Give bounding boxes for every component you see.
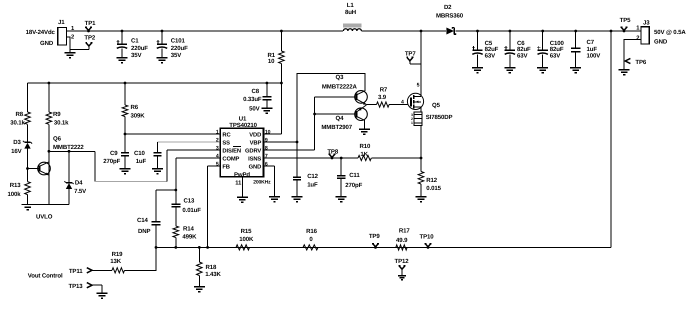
svg-text:TP2: TP2: [84, 35, 95, 42]
svg-text:MMBT2222A: MMBT2222A: [322, 83, 358, 90]
svg-text:499K: 499K: [182, 234, 197, 241]
svg-text:35V: 35V: [131, 52, 141, 59]
svg-text:82uF: 82uF: [485, 46, 499, 53]
svg-text:7.5V: 7.5V: [74, 188, 86, 195]
svg-text:13K: 13K: [110, 258, 121, 265]
svg-text:82uF: 82uF: [517, 46, 531, 53]
svg-text:TP7: TP7: [405, 51, 416, 58]
svg-text:100K: 100K: [239, 236, 254, 243]
svg-text:C10: C10: [134, 150, 145, 157]
svg-text:R10: R10: [360, 143, 371, 150]
svg-text:3.9: 3.9: [378, 94, 387, 101]
svg-text:63V: 63V: [485, 53, 495, 60]
svg-text:TP12: TP12: [395, 258, 410, 265]
svg-text:49.9: 49.9: [396, 237, 408, 244]
svg-text:1uF: 1uF: [307, 182, 318, 189]
svg-text:270pF: 270pF: [103, 158, 120, 165]
svg-text:4: 4: [401, 100, 404, 106]
svg-text:7: 7: [265, 153, 268, 159]
svg-text:63V: 63V: [517, 53, 527, 60]
svg-text:220uF: 220uF: [131, 45, 148, 52]
svg-text:R15: R15: [241, 228, 252, 235]
svg-text:1.43K: 1.43K: [205, 271, 221, 278]
svg-text:C12: C12: [307, 173, 318, 180]
svg-text:C1: C1: [131, 37, 139, 44]
svg-text:R14: R14: [183, 226, 194, 233]
svg-text:D3: D3: [13, 139, 21, 146]
svg-text:GND: GND: [40, 40, 54, 47]
svg-text:TP11: TP11: [69, 268, 83, 275]
svg-text:TP8: TP8: [327, 148, 338, 155]
svg-text:8uH: 8uH: [345, 9, 356, 16]
svg-text:18V-24Vdc: 18V-24Vdc: [26, 29, 56, 36]
svg-text:R13: R13: [10, 182, 21, 189]
svg-text:63V: 63V: [550, 53, 560, 60]
svg-text:SI7850DP: SI7850DP: [426, 114, 453, 121]
svg-text:RC: RC: [222, 131, 231, 138]
svg-text:TP13: TP13: [69, 283, 84, 290]
svg-text:100k: 100k: [8, 191, 22, 198]
svg-text:J3: J3: [643, 19, 650, 26]
svg-text:D2: D2: [444, 4, 452, 11]
svg-text:R7: R7: [380, 86, 388, 93]
svg-text:50V @ 0.5A: 50V @ 0.5A: [654, 29, 686, 36]
svg-text:270pF: 270pF: [345, 182, 362, 189]
svg-text:MBRS360: MBRS360: [436, 13, 464, 20]
svg-text:4: 4: [216, 153, 219, 159]
svg-text:2: 2: [636, 35, 639, 42]
svg-text:C8: C8: [252, 88, 260, 95]
svg-text:3: 3: [216, 145, 219, 151]
svg-text:0.33uF: 0.33uF: [243, 96, 262, 103]
svg-text:Vout Control: Vout Control: [28, 272, 63, 279]
svg-text:1uF: 1uF: [136, 158, 147, 165]
svg-text:5: 5: [417, 82, 420, 88]
svg-text:C14: C14: [137, 217, 148, 224]
svg-text:Q4: Q4: [336, 115, 345, 122]
svg-text:TP10: TP10: [420, 234, 435, 241]
svg-text:D4: D4: [75, 179, 83, 186]
svg-text:30.1k: 30.1k: [10, 119, 25, 126]
svg-text:COMP: COMP: [222, 155, 239, 162]
svg-text:R9: R9: [53, 111, 61, 118]
svg-text:0.01uF: 0.01uF: [182, 207, 201, 214]
svg-text:TP1: TP1: [85, 20, 96, 27]
svg-text:1uF: 1uF: [587, 46, 598, 53]
svg-text:R12: R12: [426, 177, 437, 184]
svg-text:R17: R17: [399, 228, 410, 235]
svg-text:8: 8: [265, 145, 268, 151]
svg-text:9: 9: [265, 137, 268, 143]
svg-text:R6: R6: [131, 104, 139, 111]
svg-text:UVLO: UVLO: [36, 213, 53, 220]
svg-text:L1: L1: [347, 2, 355, 9]
svg-text:309K: 309K: [131, 113, 146, 120]
svg-text:SS: SS: [222, 139, 230, 146]
svg-text:30.1k: 30.1k: [54, 119, 69, 126]
svg-text:200KHz: 200KHz: [253, 180, 271, 186]
svg-text:2: 2: [71, 33, 74, 40]
svg-text:TP5: TP5: [620, 17, 631, 24]
svg-text:35V: 35V: [171, 52, 181, 59]
svg-text:TP6: TP6: [635, 59, 646, 66]
svg-text:R16: R16: [306, 228, 317, 235]
svg-text:1K: 1K: [360, 151, 368, 158]
svg-text:GND: GND: [249, 163, 262, 170]
svg-text:ISNS: ISNS: [248, 155, 261, 162]
svg-text:PwPd: PwPd: [234, 171, 250, 178]
svg-text:DIS/EN: DIS/EN: [222, 147, 241, 154]
svg-text:100V: 100V: [587, 53, 601, 60]
svg-text:0.015: 0.015: [426, 185, 441, 192]
svg-text:6: 6: [265, 161, 268, 167]
svg-text:C101: C101: [171, 37, 186, 44]
svg-text:GDRV: GDRV: [245, 147, 261, 154]
svg-text:TPS40210: TPS40210: [229, 122, 257, 129]
svg-text:MMBT2907: MMBT2907: [321, 124, 352, 131]
svg-text:TP9: TP9: [369, 233, 380, 240]
svg-text:FB: FB: [222, 164, 230, 170]
svg-text:5: 5: [216, 161, 219, 167]
svg-text:C13: C13: [184, 197, 195, 204]
svg-text:1: 1: [411, 121, 413, 125]
svg-text:10: 10: [268, 58, 275, 65]
svg-text:220uF: 220uF: [171, 45, 188, 52]
svg-text:J1: J1: [58, 19, 65, 26]
svg-text:MMBT2222: MMBT2222: [53, 144, 84, 151]
svg-text:Q3: Q3: [336, 74, 345, 81]
svg-text:R8: R8: [16, 111, 24, 118]
svg-text:Q5: Q5: [432, 102, 441, 109]
svg-text:1: 1: [216, 129, 219, 135]
svg-text:C7: C7: [587, 39, 595, 46]
svg-text:VBP: VBP: [250, 140, 262, 146]
svg-text:R18: R18: [206, 264, 217, 271]
svg-text:C11: C11: [349, 172, 360, 179]
svg-text:2: 2: [216, 137, 219, 143]
svg-text:10: 10: [265, 129, 271, 135]
svg-text:50V: 50V: [249, 106, 259, 113]
svg-text:16V: 16V: [11, 148, 21, 155]
svg-text:U1: U1: [239, 116, 247, 123]
svg-text:VDD: VDD: [249, 132, 261, 138]
svg-text:82uF: 82uF: [550, 46, 564, 53]
svg-text:11: 11: [235, 181, 242, 187]
svg-text:R19: R19: [112, 251, 123, 258]
svg-text:DNP: DNP: [138, 228, 150, 235]
svg-text:Q6: Q6: [53, 135, 62, 142]
svg-text:GND: GND: [654, 38, 668, 45]
svg-text:C9: C9: [110, 150, 118, 157]
